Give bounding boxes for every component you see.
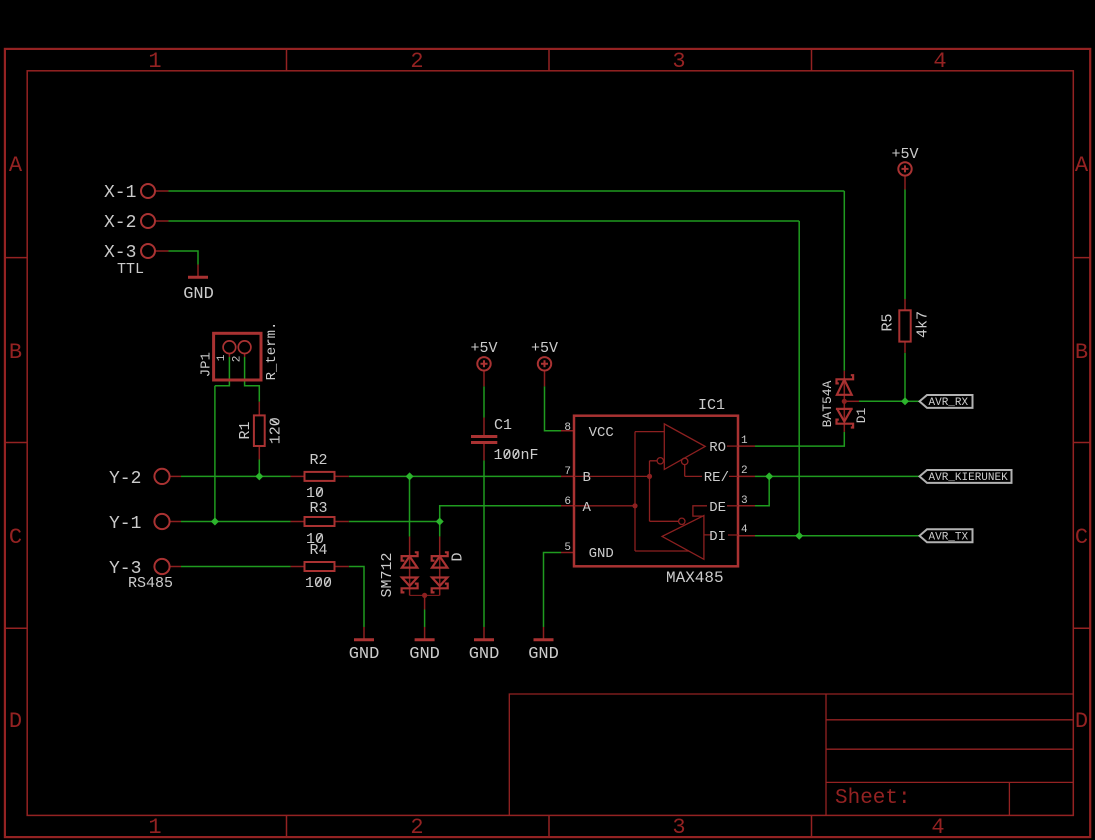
PARTS xyxy=(141,162,1012,640)
svg-text:3: 3 xyxy=(672,49,685,74)
supply +5V P2 symbol xyxy=(538,357,551,370)
diode D1 BAT54A xyxy=(836,371,859,432)
junction node AVR_RX xyxy=(901,397,909,405)
pin stub Y-3 xyxy=(169,566,181,568)
svg-text:AVR_RX: AVR_RX xyxy=(929,397,969,409)
svg-text:X-2: X-2 xyxy=(104,213,136,233)
svg-text:R4: R4 xyxy=(310,542,328,559)
pin stub X-3 xyxy=(155,250,169,252)
IC1 internal DE branch xyxy=(693,506,738,516)
svg-text:C1: C1 xyxy=(494,417,512,434)
wire R2 to IC1 pin B xyxy=(349,475,561,477)
svg-text:B: B xyxy=(1075,340,1088,365)
pin stubs IC1 left (8 7 6 5) xyxy=(561,431,574,553)
svg-text:+5V: +5V xyxy=(531,340,558,357)
IC1 internal RE branch xyxy=(685,465,738,477)
svg-text:4: 4 xyxy=(931,815,944,840)
svg-text:A: A xyxy=(9,153,23,178)
frame column labels top xyxy=(148,49,946,74)
IC1 internal DI line xyxy=(704,534,738,536)
pin stub X-2 xyxy=(155,220,169,222)
resistor R3 xyxy=(305,517,335,526)
svg-text:DE: DE xyxy=(709,500,726,516)
svg-text:B: B xyxy=(9,340,22,365)
svg-text:Y-1: Y-1 xyxy=(109,514,141,534)
wire Y-1 to R3 xyxy=(181,521,291,523)
pin stubs R4 xyxy=(291,566,349,568)
resistor R1 xyxy=(254,415,265,446)
IC1 inversion bubble 3 xyxy=(679,518,685,524)
svg-text:D: D xyxy=(9,709,22,734)
wire C1 to GND xyxy=(483,460,485,627)
wire JP1 pin1 drop to net A xyxy=(214,386,216,522)
connector X-2 xyxy=(141,214,155,228)
pin stub GND at C1 xyxy=(483,627,485,640)
svg-text:MAX485: MAX485 xyxy=(666,569,724,587)
pin stub Y-1 xyxy=(169,521,181,523)
svg-text:+5V: +5V xyxy=(470,340,497,357)
label R1 value 120 xyxy=(268,417,285,444)
supply +5V P3 symbol xyxy=(898,162,911,175)
pin stubs R2 xyxy=(291,475,349,477)
title block outline xyxy=(509,694,1073,815)
svg-text:4: 4 xyxy=(741,524,748,536)
wire R1 bottom to net B xyxy=(258,460,260,477)
svg-text:GND: GND xyxy=(469,645,500,664)
svg-text:TTL: TTL xyxy=(117,261,144,278)
frame column dividers top xyxy=(287,49,812,71)
TVS SM712 right pair xyxy=(432,537,448,596)
wire R3 to node A xyxy=(349,521,440,523)
resistor R5 xyxy=(899,310,910,341)
svg-text:GND: GND xyxy=(528,645,559,664)
wire D1 middle to AVR_RX node xyxy=(859,400,905,402)
frame row dividers right xyxy=(1073,258,1090,629)
svg-text:1: 1 xyxy=(741,435,748,447)
wire net X-1 horizontal xyxy=(169,190,845,192)
svg-text:2: 2 xyxy=(410,815,423,840)
IC1 inversion bubble 2 xyxy=(682,458,688,464)
svg-text:R1: R1 xyxy=(237,421,254,439)
wire RE node down to IC1 pin DE xyxy=(755,476,769,505)
pin stubs C1 xyxy=(483,418,485,461)
IC1 internal B branch xyxy=(574,461,679,522)
pin stub GND at R4 xyxy=(363,627,365,640)
ground GND3 at SM712 xyxy=(415,638,435,641)
svg-text:Y-2: Y-2 xyxy=(109,469,141,489)
svg-text:120: 120 xyxy=(268,417,285,444)
pin stubs R3 xyxy=(291,521,349,523)
svg-text:D1: D1 xyxy=(854,408,869,424)
wire JP1 pin2 to R1 top xyxy=(245,357,260,402)
svg-text:GND: GND xyxy=(409,645,440,664)
svg-text:X-1: X-1 xyxy=(104,183,136,203)
pin stubs JP1 xyxy=(229,354,244,357)
IC1 junction dot B xyxy=(647,474,652,479)
svg-text:GND: GND xyxy=(589,546,614,562)
ground GND2 at R4 xyxy=(354,638,374,641)
PINS xyxy=(155,176,905,640)
label R4 value 100 xyxy=(305,575,332,592)
svg-text:1: 1 xyxy=(216,354,228,361)
connector X-3 xyxy=(141,244,155,258)
wire +5V to R5 xyxy=(904,190,906,300)
IC1 MAX485 box xyxy=(574,416,738,567)
svg-text:D: D xyxy=(1075,709,1088,734)
junction node B/SM712 xyxy=(406,472,414,480)
wire R5 to AVR_RX node xyxy=(904,353,906,402)
svg-text:2: 2 xyxy=(410,49,423,74)
svg-text:IC1: IC1 xyxy=(698,397,725,414)
pin stub Y-2 xyxy=(169,475,181,477)
wire IC1 pin DI to AVR_TX xyxy=(755,535,920,537)
svg-text:RE/: RE/ xyxy=(704,470,729,486)
IC1 junction dot A xyxy=(632,503,637,508)
svg-text:A: A xyxy=(583,500,592,516)
capacitor C1 plates xyxy=(471,435,497,438)
svg-text:7: 7 xyxy=(564,466,571,478)
supply +5V P1 symbol xyxy=(477,357,490,370)
pin stubs IC1 right (1 2 3 4) xyxy=(738,446,755,536)
pin stubs R5 xyxy=(904,299,906,353)
wire AVR_RX node to tag xyxy=(905,400,920,402)
wire net X-2 horizontal xyxy=(169,220,800,222)
pin stub GND at IC1 xyxy=(543,627,545,640)
jumper JP1 pad 2 xyxy=(238,341,251,354)
svg-text:VCC: VCC xyxy=(589,425,614,441)
junction D1 middle node xyxy=(842,399,847,404)
label R3 value 10 xyxy=(306,531,324,548)
IC1 inversion bubble 1 xyxy=(657,458,663,464)
frame column dividers bottom xyxy=(287,815,812,836)
svg-text:C: C xyxy=(9,525,22,550)
svg-text:R5: R5 xyxy=(880,313,897,331)
svg-text:1: 1 xyxy=(148,49,161,74)
junction node JP1/A xyxy=(211,518,219,526)
IC1 internal vertical bus xyxy=(635,432,689,551)
connector X-1 xyxy=(141,184,155,198)
svg-text:X-3: X-3 xyxy=(104,243,136,263)
junction node X-2/DI xyxy=(795,532,803,540)
wire Y-2 to R2 xyxy=(181,475,291,477)
IC1 internal receiver triangle xyxy=(664,424,705,470)
svg-text:AVR_TX: AVR_TX xyxy=(929,532,969,544)
wire net B drop to SM712 left xyxy=(409,476,411,536)
svg-text:4k7: 4k7 xyxy=(914,311,931,338)
resistor R2 xyxy=(305,472,335,481)
wire SM712 common to GND xyxy=(424,610,426,628)
svg-text:AVR_KIERUNEK: AVR_KIERUNEK xyxy=(929,472,1009,484)
svg-text:5: 5 xyxy=(564,542,571,554)
wire net X-1 vertical to D1 xyxy=(843,191,845,371)
jumper JP1 pad 1 xyxy=(223,341,236,354)
IC1 internal A branch xyxy=(574,505,635,507)
svg-text:C: C xyxy=(1075,525,1088,550)
frame column labels bottom xyxy=(148,815,944,840)
svg-text:GND: GND xyxy=(349,645,380,664)
svg-text:B: B xyxy=(583,470,591,486)
ground GND1 at X-3 xyxy=(188,276,208,279)
pin stub SM712 common node to GND xyxy=(424,596,426,640)
label C1 value 100nF xyxy=(494,447,539,464)
IC1 internal RO line xyxy=(727,445,738,447)
svg-text:R2: R2 xyxy=(310,452,328,469)
TVS SM712 left pair xyxy=(402,537,418,596)
svg-text:A: A xyxy=(1075,153,1089,178)
label tag AVR_TX xyxy=(920,529,973,542)
svg-text:D: D xyxy=(450,552,467,561)
frame row labels right xyxy=(1075,153,1089,734)
wire JP1 pin1 down-left xyxy=(215,357,230,386)
IC1 internal driver triangle xyxy=(662,516,704,560)
frame row dividers left xyxy=(5,258,27,629)
svg-text:100: 100 xyxy=(305,575,332,592)
label tag AVR_RX xyxy=(920,395,973,408)
wire net X-2 vertical to AVR_TX node xyxy=(798,221,800,536)
wire X-3 to GND xyxy=(169,251,199,265)
ground GND4 at C1 xyxy=(474,638,494,641)
label R2 value 10 xyxy=(306,485,324,502)
svg-text:2: 2 xyxy=(741,465,748,477)
pin stub GND at X-3 xyxy=(197,265,199,278)
svg-text:8: 8 xyxy=(564,422,571,434)
pin stub X-1 xyxy=(155,190,169,192)
junction node A/SM712 xyxy=(436,518,444,526)
label tag AVR_KIERUNEK xyxy=(920,470,1012,483)
svg-text:R_term.: R_term. xyxy=(264,322,280,381)
svg-text:BAT54A: BAT54A xyxy=(820,380,835,427)
connector Y-2 xyxy=(154,469,169,484)
junction node RE/DE xyxy=(765,472,773,480)
wire R4 to GND xyxy=(349,567,364,628)
svg-text:+5V: +5V xyxy=(891,146,918,163)
svg-text:6: 6 xyxy=(564,496,571,508)
svg-text:3: 3 xyxy=(741,495,748,507)
junction SM712 common node xyxy=(422,593,427,598)
pin stub +5V P1 xyxy=(483,371,485,387)
wire SM712 common horizontal xyxy=(410,594,440,596)
svg-text:SM712: SM712 xyxy=(379,552,396,597)
svg-text:1: 1 xyxy=(148,815,161,840)
connector Y-3 xyxy=(154,559,169,574)
wire +5V to IC1 pin VCC xyxy=(545,386,562,430)
svg-text:RO: RO xyxy=(709,440,726,456)
svg-text:100nF: 100nF xyxy=(494,447,539,464)
pin stub +5V P3 xyxy=(904,176,906,190)
jumper JP1 box xyxy=(214,333,261,380)
svg-text:Sheet:: Sheet: xyxy=(835,787,911,810)
svg-text:R3: R3 xyxy=(310,500,328,517)
junction node R1/B xyxy=(255,472,263,480)
svg-text:RS485: RS485 xyxy=(128,575,173,592)
wire node A up and to IC1 pin A xyxy=(440,506,561,522)
wire node A drop to SM712 right xyxy=(439,522,441,537)
svg-text:DI: DI xyxy=(709,529,726,545)
frame row labels left xyxy=(9,153,23,734)
svg-text:3: 3 xyxy=(672,815,685,840)
wire Y-3 to R4 xyxy=(181,566,291,568)
svg-text:JP1: JP1 xyxy=(199,352,215,377)
wire +5V to C1 xyxy=(483,386,485,417)
wire IC1 pin RE to AVR_KIERUNEK xyxy=(755,475,920,477)
svg-text:4: 4 xyxy=(933,49,946,74)
wire D1 to IC1 pin RO xyxy=(755,432,844,446)
connector Y-1 xyxy=(154,514,169,529)
pin stubs R1 xyxy=(258,402,260,460)
wire IC1 pin GND to GND xyxy=(544,553,562,628)
ground GND5 at IC1 xyxy=(534,638,554,641)
svg-text:GND: GND xyxy=(183,285,214,304)
pin stub +5V P2 xyxy=(544,371,546,387)
resistor R4 xyxy=(305,562,335,571)
svg-text:2: 2 xyxy=(232,356,244,363)
